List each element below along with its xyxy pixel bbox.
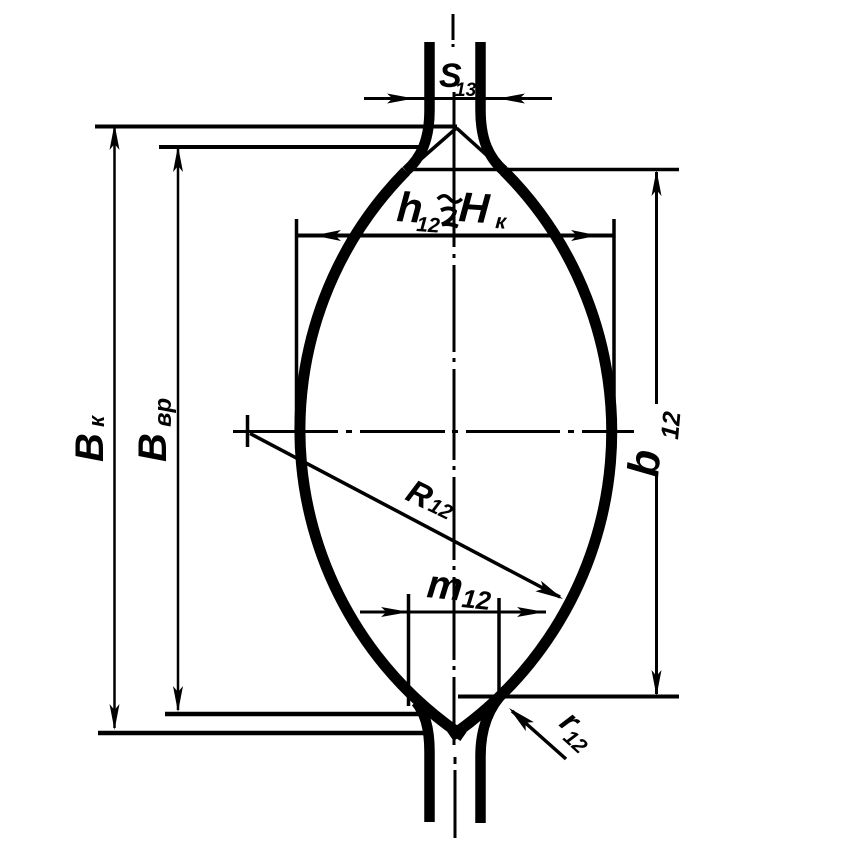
- r12 leader with arrowhead: [509, 708, 566, 759]
- svg-text:b: b: [619, 448, 670, 479]
- Bvr top extension line: [159, 145, 420, 149]
- h left extension line: [295, 219, 299, 440]
- Bk top extension line: [95, 125, 457, 129]
- bottom-right stem with flare: [481, 690, 507, 823]
- center mark + for R12: [246, 415, 250, 447]
- horizontal centerline (dash-dot axis): [233, 430, 634, 433]
- svg-text:вр: вр: [150, 398, 177, 427]
- m12 left extension line: [407, 594, 411, 706]
- thin construction triangle left side: [413, 128, 457, 166]
- svg-text:13: 13: [455, 80, 477, 101]
- svg-text:m: m: [425, 562, 465, 609]
- b12 dimension line with arrows (gap at label): [652, 170, 662, 696]
- m12 dimension line with arrows: [360, 607, 546, 617]
- svg-text:12: 12: [656, 410, 686, 440]
- bottom-left stem with flare: [416, 702, 430, 822]
- thin construction triangle right side: [457, 128, 503, 169]
- b12 bottom extension line: [458, 695, 679, 699]
- svg-text:12: 12: [416, 213, 441, 238]
- h right extension line: [612, 219, 616, 430]
- m12 right extension line: [497, 598, 501, 702]
- profile outline: right arc of lens: [451, 171, 612, 737]
- Bvr bottom extension line: [165, 712, 421, 717]
- b12 top extension line: [409, 168, 679, 172]
- svg-text:B: B: [68, 433, 112, 462]
- vertical centerline (dash-dot axis): [453, 14, 455, 838]
- Bk dimension line with arrows: [110, 124, 120, 730]
- Bk bottom extension line: [98, 731, 429, 736]
- svg-text:12: 12: [460, 583, 492, 616]
- svg-text:B: B: [131, 433, 175, 462]
- svg-text:H: H: [457, 183, 492, 232]
- S13 dimension line with inward arrows: [364, 94, 552, 104]
- Bvr dimension line with arrows: [173, 146, 183, 712]
- R12 radius line with arrowhead: [250, 434, 563, 600]
- label tilde-z symbol: [436, 195, 462, 226]
- profile outline: top-left stem with flare into left arc: [406, 42, 430, 171]
- svg-text:к: к: [84, 414, 109, 427]
- h12/Hk dimension line with outward arrows: [298, 230, 613, 241]
- profile outline: top-right stem with flare into right arc: [481, 42, 505, 171]
- profile outline: left arc of lens: [300, 171, 464, 737]
